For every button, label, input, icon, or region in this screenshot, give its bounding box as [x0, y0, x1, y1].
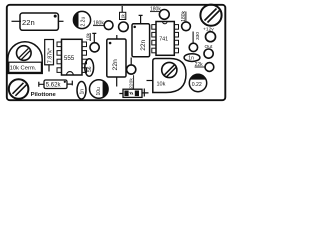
wire lead to C 22n top-left: [12, 20, 22, 22]
pad circle +12v: [206, 32, 216, 42]
trimmer 10k (bottom right, D-shaped body): [153, 59, 186, 93]
pad circle 10k mid: [90, 43, 99, 52]
pad circle for 330: [189, 43, 197, 51]
svg-text:741: 741: [159, 37, 168, 43]
label 180k (top right, horizontal): [150, 7, 161, 13]
resistor 5.62k*: [44, 80, 67, 89]
capacitor C 2.2u electrolytic: [73, 11, 90, 28]
label 22k: [195, 62, 205, 68]
wire from C4 bottom down: [116, 77, 118, 87]
label 220k (vertical): [128, 75, 134, 89]
wire leads of 5.62k: [39, 81, 73, 87]
svg-text:Pilottone: Pilottone: [31, 92, 57, 98]
op-amp U2 741: [152, 22, 179, 56]
capacitor 10u electrolytic (bottom middle): [90, 80, 109, 99]
svg-text:1n: 1n: [188, 56, 194, 62]
svg-text:1k: 1k: [121, 13, 126, 19]
label 330 (vertical): [193, 32, 201, 44]
resistor 7.87k* (vertical): [45, 40, 54, 65]
capacitor C4 22n (vertical, middle): [107, 39, 126, 77]
pins U1 left: [57, 42, 62, 72]
wire from top border to R 1k: [121, 6, 123, 12]
pad circle for top 180k: [159, 10, 169, 20]
wire stub above 10k pad: [92, 33, 96, 42]
pins U1 right: [82, 42, 87, 72]
resistor R 1k: [120, 12, 126, 19]
resistor 56 (vertical oval): [85, 59, 94, 76]
svg-text:22n: 22n: [140, 39, 147, 50]
svg-text:22n: 22n: [112, 59, 119, 71]
board outline: [7, 5, 226, 100]
pad circle right of 22k: [205, 63, 214, 72]
svg-text:10u: 10u: [96, 87, 102, 96]
svg-text:1n: 1n: [79, 89, 85, 95]
pins U2 right: [174, 25, 178, 53]
pad circle below 1k: [119, 22, 129, 32]
wire stub with end tick above C3: [139, 15, 143, 24]
svg-text:10k Cerm.: 10k Cerm.: [10, 66, 37, 72]
wire lead left of 10k trimmer: [147, 80, 153, 82]
svg-text:7.87k*: 7.87k*: [47, 47, 53, 63]
pins U2 left: [152, 25, 156, 53]
wire below 7.87k: [48, 65, 50, 72]
wire stub from 220k pad up: [130, 58, 132, 65]
resistor (bottom middle, banded): [123, 89, 142, 97]
wire from C4 top up with tick: [116, 35, 118, 39]
svg-text:5.62k: 5.62k: [46, 83, 62, 89]
capacitor C3 22n (vertical, upper middle): [132, 24, 150, 57]
capacitor 1n (horizontal oval, right): [184, 54, 200, 62]
svg-text:330: 330: [195, 32, 201, 40]
label 180k (top middle): [93, 21, 105, 27]
timer U1 555: [57, 39, 87, 75]
mounting screw bottom-left: [9, 79, 29, 99]
capacitor 1n (vertical oval, bottom middle): [77, 82, 86, 100]
svg-text:0.22: 0.22: [192, 82, 202, 88]
capacitor C 22n (top-left box): [20, 13, 58, 30]
wire leads of bottom resistor: [119, 89, 148, 97]
pad circle for 180k: [104, 21, 113, 30]
svg-text:56: 56: [87, 66, 93, 72]
label 10k (vertical, mid): [85, 32, 91, 41]
svg-text:22n: 22n: [22, 18, 35, 27]
pad circle 220k: [127, 65, 136, 74]
label 180k (vertical, right of 741): [181, 10, 187, 21]
wire lead right of 22n box: [58, 20, 63, 22]
capacitor 0.22 (bottom right): [189, 74, 206, 91]
mounting screw top-right: [200, 5, 221, 26]
svg-text:555: 555: [64, 55, 75, 62]
trimmer 10k Cerm. (arch body, left): [8, 42, 42, 74]
svg-text:10k: 10k: [157, 82, 166, 88]
pad circle for vertical 180k: [182, 22, 191, 31]
pad circle Out: [204, 49, 213, 58]
svg-text:2.2u: 2.2u: [81, 17, 87, 27]
